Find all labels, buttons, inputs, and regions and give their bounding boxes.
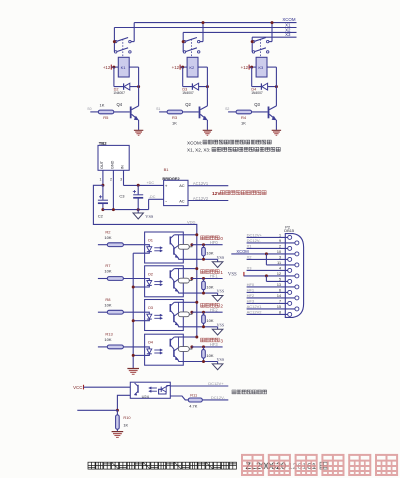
label VSS O1 xyxy=(217,255,225,260)
wire pin2 X1 xyxy=(247,247,288,249)
wire emitter row O3 xyxy=(183,326,217,328)
label VSS at rail xyxy=(145,214,154,219)
opto O2 internal resistor xyxy=(178,278,192,283)
wire emitter to ground xyxy=(275,120,277,130)
wire X1 bus xyxy=(114,27,296,29)
wire base resistor to base xyxy=(183,111,199,113)
transistor Q3 emitter xyxy=(269,114,276,120)
wire pin6 HF1 xyxy=(247,291,288,293)
wire VCC to U24 xyxy=(84,386,131,388)
svg-text:+12: +12 xyxy=(172,65,180,70)
label R5 xyxy=(103,115,109,120)
relay K1 actuator dashed link xyxy=(122,39,124,57)
wire XCOM to pin11 xyxy=(266,254,294,265)
TB2 pin 3 wire IN xyxy=(123,170,125,185)
wire +12 to coil xyxy=(249,66,256,68)
optocoupler O3 designator xyxy=(148,305,154,310)
label 10K of R7 xyxy=(104,269,111,274)
label 1K above R5 xyxy=(100,103,105,108)
wire +12 to coil xyxy=(180,66,187,68)
resistor R13 10K xyxy=(107,345,123,349)
wire cathode node to collector xyxy=(132,67,139,110)
svg-text:7: 7 xyxy=(279,300,281,304)
wire pin4 X3 xyxy=(247,269,288,271)
opto O4 darlington xyxy=(170,337,183,362)
svg-text:AC: AC xyxy=(179,199,185,204)
svg-text:HF0: HF0 xyxy=(247,282,255,287)
diode value 1N4007 xyxy=(113,91,125,95)
wire R13 to opto O4 xyxy=(123,346,144,348)
junction rail GND pin xyxy=(112,208,115,211)
wire VSS to pin5 xyxy=(266,276,287,282)
junction output node O4 xyxy=(190,345,193,348)
bridge B1 box xyxy=(164,180,188,205)
pin 14 number xyxy=(277,294,281,298)
port label S0 xyxy=(87,107,91,111)
relay K3 actuator dashed link xyxy=(260,39,262,57)
transistor Q2 designator xyxy=(185,102,191,107)
wire R2 to opto O1 xyxy=(123,244,144,246)
capacitor C2 plus xyxy=(99,195,102,198)
svg-text:10K: 10K xyxy=(104,302,111,307)
svg-text:R2: R2 xyxy=(105,229,111,234)
svg-text:14: 14 xyxy=(277,294,281,298)
capacitor C3 plus xyxy=(133,190,136,193)
watermark pink text xyxy=(242,455,397,475)
label 10K of R13 xyxy=(104,337,111,342)
net label X1 xyxy=(285,23,291,28)
wire input stub R13 xyxy=(98,346,107,348)
net label AC12V1 pin15 xyxy=(247,304,263,309)
wire coil right pin xyxy=(129,66,138,68)
capacitor C2 xyxy=(98,200,108,203)
junction pulldown top O1 xyxy=(202,243,205,246)
optocoupler U24 box xyxy=(130,382,170,398)
pin 2 number xyxy=(279,245,281,249)
svg-text:+12: +12 xyxy=(103,65,111,70)
resistor R5 1K xyxy=(98,110,114,114)
annotation HF output 3 (red) xyxy=(201,338,224,343)
label 1K below R4 xyxy=(241,120,246,125)
resistor R7 10K xyxy=(107,277,123,281)
label 4.7K xyxy=(189,403,197,408)
label R10 xyxy=(123,415,131,420)
net label HF3 pin7 xyxy=(247,298,255,303)
diode D2 designator xyxy=(114,88,119,92)
svg-text:1K: 1K xyxy=(100,103,105,108)
wire OUT node to C2 xyxy=(102,185,104,200)
wire pin12 VSS xyxy=(244,275,295,277)
wire emitter to ground xyxy=(206,120,208,130)
wire C3 top xyxy=(137,185,139,194)
wire bus to K3 common contacts xyxy=(251,37,253,52)
wire X2 bus xyxy=(183,31,296,33)
svg-text:2: 2 xyxy=(110,178,112,182)
net label HF2 pin14 xyxy=(247,293,255,298)
svg-text:AC: AC xyxy=(179,183,185,188)
relay K2 coil box xyxy=(187,57,198,77)
bridge pin - xyxy=(165,199,167,205)
opto O1 light arrows xyxy=(154,247,162,252)
svg-text:+: + xyxy=(165,184,168,189)
wire pin10 XCOM xyxy=(231,253,294,255)
net label VDD xyxy=(187,220,196,225)
svg-text:R8: R8 xyxy=(105,297,111,302)
net label X3 pin4 xyxy=(247,265,253,270)
svg-text:VSS: VSS xyxy=(217,255,225,260)
label VSS O2 xyxy=(217,289,225,294)
pin 7 number xyxy=(279,300,281,304)
optocoupler O1 designator xyxy=(148,238,154,243)
wire C2 to ground rail xyxy=(102,204,104,210)
transistor Q3 base bar xyxy=(268,107,270,119)
pin 12 number xyxy=(277,272,281,276)
ground under Q2 xyxy=(203,130,212,135)
wire input stub to resistor xyxy=(90,111,98,113)
wire pin14 HF2 xyxy=(247,297,295,299)
junction VSS pins 12-5 xyxy=(265,274,268,277)
power VSS symbol O1 xyxy=(212,259,223,267)
transistor Q4 designator xyxy=(117,102,123,107)
svg-text:O4: O4 xyxy=(148,340,154,345)
svg-text:9: 9 xyxy=(279,239,281,243)
svg-text:AC12V1: AC12V1 xyxy=(193,181,209,186)
net label X2 pin3 xyxy=(247,254,253,259)
wire emitter to ground xyxy=(138,120,140,130)
svg-text:2: 2 xyxy=(220,304,223,309)
resistor pulldown 10K O2 xyxy=(202,279,206,294)
wire cathode node to collector xyxy=(200,67,207,110)
net label DC12V+ pin1 xyxy=(247,232,263,237)
wire input stub R2 xyxy=(98,244,107,246)
wire input stub R7 xyxy=(98,278,107,280)
pin 4 number xyxy=(279,267,281,271)
svg-text:DC12V+: DC12V+ xyxy=(247,232,263,237)
svg-text:X1, X2, X3:: X1, X2, X3: xyxy=(187,148,210,153)
svg-text:1N4007: 1N4007 xyxy=(182,91,194,95)
resistor R3 1K xyxy=(167,110,183,114)
svg-text:VSS: VSS xyxy=(217,357,225,362)
net label DC12V+ at U24 xyxy=(208,381,224,386)
label 1K of R10 xyxy=(123,423,128,428)
wire HF output HF3 xyxy=(192,346,223,348)
optocoupler O2 box xyxy=(145,266,184,297)
svg-text:10K: 10K xyxy=(206,318,213,323)
svg-text:VDD: VDD xyxy=(187,220,196,225)
relay K2 contact arms xyxy=(186,38,197,52)
power VSS symbol O3 xyxy=(212,327,223,335)
svg-text:1K: 1K xyxy=(172,120,177,125)
junction pulldown bottom O2 xyxy=(202,292,205,295)
pin 15 number xyxy=(277,305,281,309)
svg-text:X3: X3 xyxy=(285,32,291,37)
svg-text:-: - xyxy=(165,199,167,205)
wire collector to VDD rail xyxy=(183,336,197,338)
svg-text:+12: +12 xyxy=(241,65,249,70)
junction XCOM tap K2 xyxy=(202,21,205,24)
wire R10 to ground xyxy=(116,429,118,431)
port label S2 xyxy=(225,107,229,111)
wire collector to VDD rail xyxy=(183,301,197,303)
svg-text:DB15: DB15 xyxy=(284,228,294,233)
power VCC label xyxy=(73,385,83,390)
label 10K pulldown O3 xyxy=(206,318,213,323)
TB2 pin name IN xyxy=(121,165,125,169)
svg-text:XCOM:: XCOM: xyxy=(187,140,202,145)
junction coil left pin xyxy=(112,66,115,69)
resistor R4 1K xyxy=(236,110,252,114)
annotation HF output 0 (red) xyxy=(201,236,224,241)
junction collector VDD O1 xyxy=(195,233,198,236)
junction pulldown top O3 xyxy=(202,311,205,314)
relay K1 contact arms xyxy=(117,38,128,52)
wire pin8 AC12V2 xyxy=(247,313,288,315)
wire C3 bottom xyxy=(137,198,139,209)
diode value 1N4007 xyxy=(251,91,263,95)
relay K1 contact circles xyxy=(115,40,132,53)
net label HF0 pin13 xyxy=(247,282,255,287)
label +DC xyxy=(147,181,155,185)
net label X3 xyxy=(285,32,291,37)
wire coil right pin xyxy=(267,66,276,68)
diode D2 1N4007 xyxy=(124,83,130,90)
wire VDD from TB2 OUT xyxy=(93,185,196,338)
junction output node O2 xyxy=(190,277,193,280)
svg-text:3: 3 xyxy=(279,256,281,260)
pin 6 number xyxy=(279,289,281,293)
wire O2 cathode to common xyxy=(133,286,144,288)
svg-text:R10: R10 xyxy=(123,415,131,420)
svg-text:1N4007: 1N4007 xyxy=(251,91,263,95)
wire emitter row O2 xyxy=(183,292,217,294)
wire input stub to resistor xyxy=(159,111,167,113)
TB2 pin 1 number xyxy=(100,178,102,182)
svg-text:VSS: VSS xyxy=(217,322,225,327)
label C2 xyxy=(98,213,104,218)
power VSS label pin12 xyxy=(228,272,244,278)
svg-text:1: 1 xyxy=(100,178,102,182)
net label AC12V1 at bridge xyxy=(193,181,209,186)
net label HF1 xyxy=(210,274,218,279)
bridge pin + xyxy=(165,184,168,189)
opto O3 internal resistor xyxy=(178,312,192,317)
svg-text:DC12V-: DC12V- xyxy=(211,395,226,400)
junction diode cathode node xyxy=(206,85,209,88)
relay K2 actuator dashed link xyxy=(191,39,193,57)
label C3 xyxy=(119,193,125,198)
optocoupler O4 box xyxy=(145,334,184,365)
svg-text:Q3: Q3 xyxy=(254,102,260,107)
opto O1 darlington xyxy=(170,235,183,259)
net label HF3 xyxy=(210,342,218,347)
label 10K pulldown O4 xyxy=(206,353,213,358)
terminal block TB2 designator xyxy=(99,141,108,146)
annotation X1 X2 X3 function (black) xyxy=(187,147,280,152)
wire U24 emitter down xyxy=(117,395,130,410)
svg-text:4: 4 xyxy=(279,267,281,271)
wire U24 collector out DC12V+ xyxy=(170,385,228,387)
relay K1 designator xyxy=(121,65,127,70)
svg-text:+DC: +DC xyxy=(147,181,155,185)
opto O1 internal resistor xyxy=(178,244,192,249)
pin 5 number xyxy=(279,278,281,282)
junction cathode O2 xyxy=(132,286,135,289)
junction XCOM pins 10-11 xyxy=(265,252,268,255)
svg-text:R11: R11 xyxy=(190,392,197,397)
svg-text:1: 1 xyxy=(279,234,281,238)
opto O2 collector internal xyxy=(174,268,183,270)
U24 LED xyxy=(159,386,171,394)
svg-text:AC12V1: AC12V1 xyxy=(247,304,263,309)
svg-text:S2: S2 xyxy=(225,107,229,111)
opto O4 collector internal xyxy=(174,336,183,338)
bridge B1 value BRIDGE2 xyxy=(162,176,180,181)
wire U24 LED to R11 xyxy=(170,396,188,400)
svg-text:X2: X2 xyxy=(247,254,253,259)
svg-text:10K: 10K xyxy=(206,251,213,256)
svg-text:10K: 10K xyxy=(206,353,213,358)
junction pulldown top O4 xyxy=(202,345,205,348)
svg-text:X1: X1 xyxy=(247,243,253,248)
wire collector to VDD rail xyxy=(183,234,197,236)
transistor Q4 emitter xyxy=(132,114,139,120)
wire HF output HF0 xyxy=(192,244,223,246)
label VSS O4 xyxy=(217,357,225,362)
TB2 pin name GND xyxy=(110,160,114,169)
svg-text:5: 5 xyxy=(279,278,281,282)
ground under Q4 xyxy=(134,130,143,135)
svg-text:X3: X3 xyxy=(247,265,253,270)
junction C2 bottom xyxy=(101,208,104,211)
net label DC12V- pin9 xyxy=(247,238,262,243)
relay K3 coil box xyxy=(256,57,267,77)
svg-text:XCOM: XCOM xyxy=(236,249,249,254)
wire ground rail xyxy=(103,209,149,211)
wire HF output HF1 xyxy=(192,278,223,280)
annotation 12V AC input (red) xyxy=(212,191,266,197)
svg-text:3: 3 xyxy=(120,178,122,182)
label R3 xyxy=(172,115,178,120)
wire bus to K2 common contacts xyxy=(182,32,184,52)
svg-text:U24: U24 xyxy=(142,394,150,399)
pin 11 number xyxy=(277,261,281,265)
label R7 xyxy=(105,263,111,268)
label R13 xyxy=(105,332,113,337)
bridge pin AC bottom xyxy=(179,199,185,204)
pin 13 number xyxy=(277,283,281,287)
resistor R8 10K xyxy=(107,310,123,314)
opto O1 LED xyxy=(145,245,152,254)
svg-text:2: 2 xyxy=(279,245,281,249)
wire LED cathode common rail xyxy=(132,253,134,368)
diode D3 1N4007 xyxy=(192,83,198,90)
optocoupler O2 designator xyxy=(148,271,154,276)
wire R7 to opto O2 xyxy=(123,278,144,280)
junction emitter node xyxy=(116,409,119,412)
svg-text:S0: S0 xyxy=(87,107,91,111)
ground cathode rail xyxy=(127,369,139,375)
label R2 xyxy=(105,229,111,234)
svg-text:8: 8 xyxy=(279,311,281,315)
label 10K of R8 xyxy=(104,302,111,307)
TB2 pin 1 wire OUT xyxy=(102,170,104,185)
opto O4 internal resistor xyxy=(178,347,192,352)
opto O3 light arrows xyxy=(154,314,162,319)
power VSS symbol O2 xyxy=(212,293,223,301)
junction cathode O4 xyxy=(132,354,135,357)
power +12 label relay K3 xyxy=(241,65,249,71)
svg-text:10K: 10K xyxy=(104,235,111,240)
annotation XCOM function (black) xyxy=(187,140,271,145)
U24 light arrows xyxy=(149,387,157,393)
optocoupler O1 box xyxy=(145,232,184,263)
connector P2 body xyxy=(285,234,303,318)
wire collector to VDD rail xyxy=(183,268,197,270)
junction output node O3 xyxy=(190,311,193,314)
wire R11 to DC12V- xyxy=(202,399,228,401)
TB2 pin 2 number xyxy=(110,178,112,182)
svg-text:HF2: HF2 xyxy=(247,293,255,298)
svg-text:Q4: Q4 xyxy=(117,102,123,107)
net label HF0 xyxy=(210,240,218,245)
ground under Q3 xyxy=(272,130,281,135)
bridge B1 designator xyxy=(164,167,170,172)
power VSS symbol O4 xyxy=(212,362,223,370)
wire pin7 HF3 xyxy=(247,302,288,304)
wire XCOM to K2 NO contact xyxy=(200,23,203,42)
wire pin1 DC12V+ xyxy=(247,236,288,238)
diode value 1N4007 xyxy=(182,91,194,95)
wire input stub to resistor xyxy=(228,111,236,113)
resistor pulldown 10K O1 xyxy=(202,245,206,260)
wire output stub left xyxy=(77,409,117,411)
net label AC12V2 pin8 xyxy=(247,309,263,314)
wire O1 cathode to common xyxy=(133,252,144,254)
diode D3 designator xyxy=(182,88,187,92)
pin 8 number xyxy=(279,311,281,315)
opto O4 LED xyxy=(145,347,152,356)
wire HF output HF2 xyxy=(192,311,223,313)
relay K2 designator xyxy=(189,65,195,70)
wire O4 cathode to common xyxy=(133,354,144,356)
net label XCOM pin10 xyxy=(236,249,249,254)
optocoupler O4 designator xyxy=(148,340,154,345)
junction TB2 OUT node xyxy=(101,184,104,187)
wire coil left to diode anode xyxy=(114,67,139,87)
svg-text:3: 3 xyxy=(220,338,223,343)
wire node to R10 xyxy=(116,410,118,415)
caption figure title (black) xyxy=(88,461,327,471)
net label X2 xyxy=(285,27,291,32)
wire pin15 AC12V1 xyxy=(247,308,295,310)
label 1K below R3 xyxy=(172,120,177,125)
svg-text:HF2: HF2 xyxy=(210,307,218,312)
svg-text:10: 10 xyxy=(277,250,281,254)
net label HF1 pin6 xyxy=(247,287,255,292)
junction common contact K1 xyxy=(113,40,116,43)
transistor Q2 emitter xyxy=(200,114,207,120)
wire bus to K1 common contacts xyxy=(113,28,115,52)
svg-text:R13: R13 xyxy=(105,332,113,337)
pin 3 number xyxy=(279,256,281,260)
power +12 label relay K1 xyxy=(103,65,111,71)
wire base resistor to base xyxy=(114,111,130,113)
diode D4 1N4007 xyxy=(261,83,267,90)
svg-text:Q2: Q2 xyxy=(185,102,191,107)
resistor R2 10K xyxy=(107,243,123,247)
bridge pin AC top xyxy=(179,183,185,188)
resistor pulldown 10K O4 xyxy=(202,347,206,362)
